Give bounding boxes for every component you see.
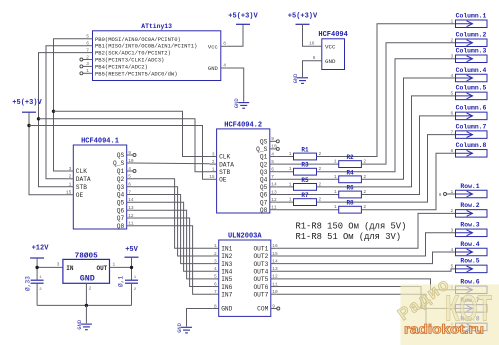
svg-text:16: 16 <box>309 41 315 47</box>
svg-text:Column.2: Column.2 <box>456 32 487 39</box>
svg-text:6: 6 <box>450 111 453 117</box>
svg-text:Q4: Q4 <box>117 192 125 199</box>
wire PB2 (STB net) left+down <box>39 53 87 187</box>
resistor R6 <box>339 191 362 198</box>
svg-text:GND: GND <box>221 306 232 313</box>
wire R6 to Column.6 <box>361 116 455 195</box>
wire HCF4094.2 Q7 to R7 <box>276 201 293 203</box>
svg-text:PB5(RESET/PCINT5/ADC0/dW): PB5(RESET/PCINT5/ADC0/dW) <box>95 70 178 77</box>
HCF4094.2 pin 2 DATA stub <box>210 163 217 165</box>
wire HCF4094.2 Q5 to R5 <box>276 186 293 188</box>
svg-text:IN5: IN5 <box>221 276 232 283</box>
svg-text:8: 8 <box>214 303 217 309</box>
node +12V junction <box>35 266 38 269</box>
svg-text:Q6: Q6 <box>260 192 268 199</box>
svg-text:4: 4 <box>223 62 226 68</box>
wire HCF4094.1 Q8 to ULN2003A IN7 <box>133 226 213 294</box>
svg-text:IN6: IN6 <box>221 284 232 291</box>
ULN2003A pin 6 IN6 stub <box>213 286 219 288</box>
connector Row.2 <box>456 210 488 218</box>
svg-text:2: 2 <box>214 251 217 257</box>
svg-text:9: 9 <box>272 303 275 309</box>
ground symbol top right <box>297 77 308 79</box>
HCF4094.1 pin 10 Q_S stub <box>127 162 133 164</box>
svg-text:2: 2 <box>86 54 89 60</box>
svg-text:1: 1 <box>334 204 337 210</box>
svg-text:2: 2 <box>450 208 453 214</box>
ground symbol regulator <box>81 323 92 325</box>
svg-text:R8: R8 <box>346 200 354 207</box>
wire Q_S to HCF4094.2 DATA <box>133 162 210 165</box>
svg-text:2: 2 <box>212 159 215 165</box>
svg-text:5: 5 <box>214 274 217 280</box>
wire R4 to Column.4 <box>361 78 455 179</box>
power symbol +5V <box>125 256 139 258</box>
ATtiny13 pin 2 stub (PB3) <box>83 59 93 61</box>
svg-text:78Ø05: 78Ø05 <box>75 252 98 261</box>
connector Row.6 <box>456 286 488 294</box>
svg-text:radiokot.ru: radiokot.ru <box>404 322 484 337</box>
wire HCF4094.1 Q2 to ULN2003A IN1 <box>133 179 213 249</box>
HCF4094.2 QS unconnected <box>276 140 279 143</box>
wire HCF4094.2 Q4 to R4 <box>276 178 338 180</box>
HCF4094 pin 16 VCC wire <box>303 24 322 46</box>
ULN2003A pin 4 IN4 stub <box>213 270 219 272</box>
connector Column.2 <box>456 39 488 47</box>
IC U3 ULN2003A body <box>219 240 271 316</box>
wire CLK branch to HCF4094.2 <box>54 111 210 156</box>
svg-text:3: 3 <box>86 61 89 67</box>
svg-text:2: 2 <box>89 286 92 292</box>
svg-text:HCF4094.1: HCF4094.1 <box>81 138 119 146</box>
connector Column.6 <box>456 112 488 120</box>
ULN2003A pin 14 OUT3 stub <box>271 263 277 265</box>
svg-text:4: 4 <box>128 166 131 172</box>
svg-text:COM: COM <box>257 306 268 313</box>
svg-text:IN7: IN7 <box>221 291 232 298</box>
svg-text:Q8: Q8 <box>260 207 268 214</box>
wire OUT3 to Row.4 <box>277 252 456 264</box>
svg-text:7: 7 <box>128 189 131 195</box>
HCF4094.1 pin 14 Q5 stub <box>127 201 133 203</box>
svg-text:STB: STB <box>76 184 87 191</box>
HCF4094.1 QS unconnected <box>133 154 136 157</box>
svg-text:+5(+3)V: +5(+3)V <box>228 12 258 20</box>
svg-text:IN3: IN3 <box>221 261 232 268</box>
ground symbol under ULN2003A <box>181 326 192 328</box>
HCF4094.2 pin 1 STB stub <box>210 171 217 173</box>
svg-text:DATA: DATA <box>76 176 91 183</box>
svg-text:+5(+3)V: +5(+3)V <box>12 99 42 107</box>
node STB branch junction <box>37 117 40 120</box>
ATtiny13 pin 3 stub (PB4) <box>83 65 93 67</box>
svg-text:Row.4: Row.4 <box>460 241 479 248</box>
HCF4094.2 pin 13 Q6 stub <box>270 194 277 196</box>
svg-text:6: 6 <box>128 182 131 188</box>
svg-text:OUT1: OUT1 <box>253 246 268 253</box>
power symbol +5(+3)V (left rail) <box>22 111 36 113</box>
svg-text:GND: GND <box>293 74 299 84</box>
svg-text:GND: GND <box>325 58 336 65</box>
svg-text:R4: R4 <box>346 169 354 176</box>
HCF4094.1 pin 15 OE stub <box>66 194 73 196</box>
svg-text:OE: OE <box>219 177 227 184</box>
svg-text:Q_S: Q_S <box>113 160 124 167</box>
ATtiny13 pin 5 stub (PB0) <box>87 38 93 40</box>
resistor R1 <box>294 153 317 160</box>
resistor R7 <box>294 199 317 206</box>
wire STB branch to HCF4094.2 <box>39 119 210 172</box>
wire OUT1 to Row.2 <box>277 213 456 248</box>
wire HCF4094.1 Q6 to ULN2003A IN5 <box>133 210 213 279</box>
svg-text:1: 1 <box>113 261 116 267</box>
svg-text:3: 3 <box>69 166 72 172</box>
svg-text:14: 14 <box>271 182 277 188</box>
svg-text:QS: QS <box>117 152 125 159</box>
svg-text:Q1: Q1 <box>260 154 268 161</box>
svg-text:Q_S: Q_S <box>256 146 267 153</box>
svg-text:R6: R6 <box>346 185 354 192</box>
wire PB1 (DATA net) left+down <box>46 46 87 179</box>
HCF4094.1 pin 2 DATA stub <box>66 178 73 180</box>
svg-text:Q1: Q1 <box>117 168 125 175</box>
connector Column.3 <box>456 55 488 63</box>
power symbol +5(+3)V (HCF4094 supply) <box>296 23 310 25</box>
HCF4094.2 pin 11 Q8 stub <box>270 209 277 211</box>
svg-text:+12V: +12V <box>32 245 50 253</box>
HCF4094.2 pin 9 QS stub <box>270 140 277 142</box>
HCF4094.1 Q1 unconnected <box>133 170 136 173</box>
wire PB0 (CLK net) left+down <box>54 39 87 171</box>
connector Column.5 <box>456 92 488 100</box>
HCF4094.1 pin 3 CLK stub <box>66 170 73 172</box>
connector Row.1 <box>456 190 488 198</box>
svg-text:Column.8: Column.8 <box>456 142 487 149</box>
IC HCF4094.2 body <box>217 129 270 213</box>
svg-text:IN4: IN4 <box>221 268 232 275</box>
ATtiny13 pin 1 stub (PB5) <box>83 72 93 74</box>
HCF4094.1 pin 1 STB stub <box>66 186 73 188</box>
wire 78L05 GND pin 2 down <box>85 283 87 305</box>
svg-text:1: 1 <box>334 174 337 180</box>
HCF4094.2 pin 6 Q3 stub <box>270 171 277 173</box>
wire OUT7 to Row.8 <box>277 294 456 327</box>
svg-text:9: 9 <box>439 192 442 198</box>
connector Row.4 <box>456 248 488 256</box>
svg-text:1: 1 <box>289 166 292 172</box>
svg-text:Q7: Q7 <box>260 199 268 206</box>
svg-text:4: 4 <box>450 247 453 253</box>
wire HCF4094.2 Q6 to R6 <box>276 194 338 196</box>
svg-text:GND: GND <box>80 274 95 284</box>
svg-text:1: 1 <box>289 197 292 203</box>
svg-text:Row.1: Row.1 <box>460 183 479 190</box>
ULN2003A pin 3 IN3 stub <box>213 263 219 265</box>
ULN2003A pin 11 OUT6 stub <box>271 286 277 288</box>
HCF4094.2 pin 12 Q7 stub <box>270 201 277 203</box>
svg-text:GND: GND <box>208 65 219 72</box>
svg-text:8: 8 <box>450 148 453 154</box>
node OE branch junction <box>27 124 30 127</box>
svg-text:IN: IN <box>66 265 74 272</box>
ULN2003A pin 12 OUT5 stub <box>271 278 277 280</box>
connector Row.8 <box>456 323 488 331</box>
wire +5 rail to OE pins <box>29 112 66 195</box>
svg-text:GND: GND <box>77 320 83 330</box>
svg-text:Q6: Q6 <box>117 207 125 214</box>
svg-text:R1: R1 <box>301 147 309 154</box>
ATtiny13 pin 7 stub (PB2) <box>87 52 93 54</box>
svg-text:CLK: CLK <box>76 168 87 175</box>
svg-text:R1-R8 51 Ом (для 3V): R1-R8 51 Ом (для 3V) <box>296 232 402 242</box>
IC HCF4094 power body <box>322 39 345 70</box>
svg-text:STB: STB <box>219 169 230 176</box>
wire HCF4094.1 Q4 to ULN2003A IN3 <box>133 195 213 264</box>
resistor R3 <box>294 168 317 175</box>
svg-text:Q2: Q2 <box>260 161 268 168</box>
svg-text:1: 1 <box>69 182 72 188</box>
svg-text:+5V: +5V <box>125 246 138 254</box>
svg-text:5: 5 <box>128 174 131 180</box>
HCF4094.2 pin 10 Q_S stub <box>270 148 277 150</box>
wire OE branch to HCF4094.2 <box>29 126 210 180</box>
svg-text:2: 2 <box>69 174 72 180</box>
ATtiny13 pin 4 GND stub <box>221 67 227 69</box>
svg-text:OUT7: OUT7 <box>253 291 268 298</box>
connector Column.7 <box>456 131 488 139</box>
HCF4094.2 pin 4 Q1 stub <box>270 156 277 158</box>
wire +12V to 78L05 IN <box>36 258 38 280</box>
watermark background <box>401 284 499 345</box>
svg-text:3: 3 <box>450 228 453 234</box>
wire R5 to Column.5 <box>317 96 456 187</box>
HCF4094.1 pin 13 Q6 stub <box>127 209 133 211</box>
svg-text:1: 1 <box>289 181 292 187</box>
wire ULN GND to ground <box>187 309 213 327</box>
wire R1 to Column.1 <box>317 24 456 157</box>
svg-text:6: 6 <box>271 167 274 173</box>
svg-text:R2: R2 <box>346 154 354 161</box>
svg-text:Column.7: Column.7 <box>456 123 487 130</box>
ULN2003A pin 9 COM stub unconnected <box>271 308 277 310</box>
wire HCF4094.2 Q8 to R8 <box>276 209 338 211</box>
svg-text:3: 3 <box>212 151 215 157</box>
svg-text:QS: QS <box>260 139 268 146</box>
ULN2003A pin 10 OUT7 stub <box>271 293 277 295</box>
resistor R2 <box>339 161 362 168</box>
svg-text:Column.4: Column.4 <box>456 67 487 74</box>
ULN2003A pin 1 IN1 stub <box>213 247 219 249</box>
HCF4094.1 pin 9 QS stub <box>127 154 133 156</box>
node CLK branch junction <box>52 110 55 113</box>
HCF4094.1 pin 6 Q3 stub <box>127 186 133 188</box>
ULN2003A pin 7 IN7 stub <box>213 293 219 295</box>
ATtiny13 pin 8 Vcc stub <box>221 45 227 47</box>
connector Column.4 <box>456 74 488 82</box>
ULN2003A pin 2 IN2 stub <box>213 255 219 257</box>
wire HCF4094.1 Q5 to ULN2003A IN4 <box>133 202 213 271</box>
connector Row.7 <box>456 305 488 313</box>
wire ATtiny GND down <box>227 68 244 102</box>
svg-text:1: 1 <box>450 189 453 195</box>
svg-text:6: 6 <box>214 281 217 287</box>
ULN2003A pin 15 OUT2 stub <box>271 255 277 257</box>
svg-text:OUT5: OUT5 <box>253 276 268 283</box>
wire OUT5 to Row.6 <box>277 279 456 290</box>
wire Vcc to +5(+3)V <box>227 24 243 46</box>
svg-text:9: 9 <box>128 150 131 156</box>
svg-text:Ø,33: Ø,33 <box>25 276 32 291</box>
ULN2003A pin 13 OUT4 stub <box>271 270 277 272</box>
svg-text:Column.6: Column.6 <box>456 105 487 112</box>
svg-text:Row.3: Row.3 <box>460 222 479 229</box>
svg-text:7: 7 <box>271 174 274 180</box>
svg-text:DATA: DATA <box>219 161 234 168</box>
svg-text:Ø,1: Ø,1 <box>118 276 125 287</box>
ATtiny13 pin 6 stub (PB1) <box>87 45 93 47</box>
svg-text:1: 1 <box>450 19 453 25</box>
ULN2003A pin 5 IN5 stub <box>213 278 219 280</box>
connector Column.8 <box>456 150 488 158</box>
HCF4094.1 pin 11 Q8 stub <box>127 225 133 227</box>
svg-text:R3: R3 <box>301 162 309 169</box>
svg-text:1: 1 <box>86 68 89 74</box>
svg-text:15: 15 <box>209 174 215 180</box>
svg-text:Vcc: Vcc <box>208 43 218 50</box>
svg-text:GND: GND <box>177 323 183 333</box>
wire R8 to Column.8 <box>361 153 455 209</box>
HCF4094.2 pin 15 OE stub <box>210 178 217 180</box>
HCF4094.1 pin 4 Q1 stub <box>127 170 133 172</box>
ULN2003A pin 16 OUT1 stub <box>271 247 277 249</box>
svg-text:ATtiny13: ATtiny13 <box>141 23 172 30</box>
svg-text:IN2: IN2 <box>221 253 232 260</box>
resistor R8 <box>339 206 362 213</box>
node rail-GND junction <box>85 304 88 307</box>
svg-text:GND: GND <box>234 98 240 108</box>
svg-text:Column.3: Column.3 <box>456 48 487 55</box>
svg-text:7: 7 <box>214 289 217 295</box>
wire R2 to Column.2 <box>361 43 455 164</box>
svg-text:OUT6: OUT6 <box>253 284 268 291</box>
HCF4094.1 pin 12 Q7 stub <box>127 217 133 219</box>
svg-text:HCF4094: HCF4094 <box>318 31 347 39</box>
svg-text:8: 8 <box>313 55 316 61</box>
svg-text:Q3: Q3 <box>260 169 268 176</box>
svg-text:CLK: CLK <box>219 154 230 161</box>
svg-text:Q5: Q5 <box>260 184 268 191</box>
wire HCF4094.1 Q7 to ULN2003A IN6 <box>133 218 213 287</box>
svg-text:7: 7 <box>86 47 89 53</box>
svg-text:1: 1 <box>214 243 217 249</box>
svg-text:R5: R5 <box>301 177 309 184</box>
wire HCF4094.2 Q3 to R3 <box>276 171 293 173</box>
svg-text:HCF4094.2: HCF4094.2 <box>224 121 262 129</box>
svg-text:R7: R7 <box>301 192 309 199</box>
HCF4094 pin 8 GND wire <box>303 61 322 77</box>
svg-text:VCC: VCC <box>325 44 336 51</box>
svg-text:Row.5: Row.5 <box>460 258 479 265</box>
svg-text:Column.5: Column.5 <box>456 85 487 92</box>
wire OUT2 to Row.3 <box>277 233 456 256</box>
svg-text:Q2: Q2 <box>117 176 125 183</box>
svg-text:15: 15 <box>66 190 72 196</box>
svg-text:Q7: Q7 <box>117 215 125 222</box>
svg-text:OUT2: OUT2 <box>253 253 268 260</box>
svg-text:3: 3 <box>214 258 217 264</box>
svg-text:Q8: Q8 <box>117 223 125 230</box>
svg-text:Q4: Q4 <box>260 177 268 184</box>
svg-text:8: 8 <box>223 41 226 47</box>
Row.1 stub unconnected pin 9 <box>447 193 456 195</box>
svg-text:3: 3 <box>57 261 60 267</box>
wire HCF4094.1 Q3 to ULN2003A IN2 <box>133 187 213 256</box>
HCF4094.2 pin 5 Q2 stub <box>270 163 277 165</box>
svg-text:OE: OE <box>76 192 84 199</box>
svg-text:5: 5 <box>450 264 453 270</box>
ground symbol under ATtiny <box>238 102 249 104</box>
IC 78L05 body <box>63 259 110 283</box>
HCF4094.2 pin 3 CLK stub <box>210 156 217 158</box>
wire R3 to Column.3 <box>317 59 456 172</box>
wire 78L05 OUT to +5V <box>110 266 132 268</box>
wire bottom rail <box>37 304 131 306</box>
svg-text:OUT: OUT <box>96 265 107 272</box>
ULN2003A pin 8 GND stub <box>213 308 219 310</box>
wire to ground <box>85 305 87 323</box>
resistor R4 <box>339 176 362 183</box>
node +5V junction <box>130 266 133 269</box>
connector Row.3 <box>456 229 488 237</box>
svg-text:OUT3: OUT3 <box>253 261 268 268</box>
power symbol +12V <box>30 257 44 259</box>
svg-text:7: 7 <box>450 129 453 135</box>
svg-text:11: 11 <box>271 205 277 211</box>
resistor R5 <box>294 184 317 191</box>
svg-text:R1-R8 150 Ом (для 5V): R1-R8 150 Ом (для 5V) <box>296 222 407 232</box>
svg-text:1: 1 <box>334 189 337 195</box>
HCF4094.1 pin 5 Q2 stub <box>127 178 133 180</box>
svg-text:9: 9 <box>271 136 274 142</box>
wire HCF4094.2 Q1 to R1 <box>276 156 293 158</box>
wire R7 to Column.7 <box>317 135 456 203</box>
svg-text:2: 2 <box>450 38 453 44</box>
svg-text:1: 1 <box>334 159 337 165</box>
HCF4094.1 pin 7 Q4 stub <box>127 194 133 196</box>
power symbol +5(+3)V (ATtiny Vcc) <box>236 23 250 25</box>
svg-text:3: 3 <box>450 54 453 60</box>
IC HCF4094.1 body <box>73 145 126 229</box>
svg-text:12: 12 <box>271 197 277 203</box>
connector Row.5 <box>456 265 488 273</box>
wire OUT6 to Row.7 <box>277 287 456 309</box>
svg-text:1: 1 <box>289 151 292 157</box>
svg-text:Row.2: Row.2 <box>460 202 479 209</box>
svg-text:13: 13 <box>271 189 277 195</box>
capacitor C2 0,1 <box>125 279 138 281</box>
svg-text:5: 5 <box>450 91 453 97</box>
HCF4094.2 Q_S unconnected <box>276 147 279 150</box>
svg-text:5: 5 <box>271 159 274 165</box>
svg-text:6: 6 <box>86 41 89 47</box>
IC U1 ATtiny13 body <box>93 31 221 81</box>
svg-text:4: 4 <box>450 73 453 79</box>
svg-text:4: 4 <box>214 266 217 272</box>
wire HCF4094.2 Q2 to R2 <box>276 163 338 165</box>
svg-text:IN1: IN1 <box>221 246 232 253</box>
svg-text:Q3: Q3 <box>117 184 125 191</box>
svg-text:1: 1 <box>212 167 215 173</box>
